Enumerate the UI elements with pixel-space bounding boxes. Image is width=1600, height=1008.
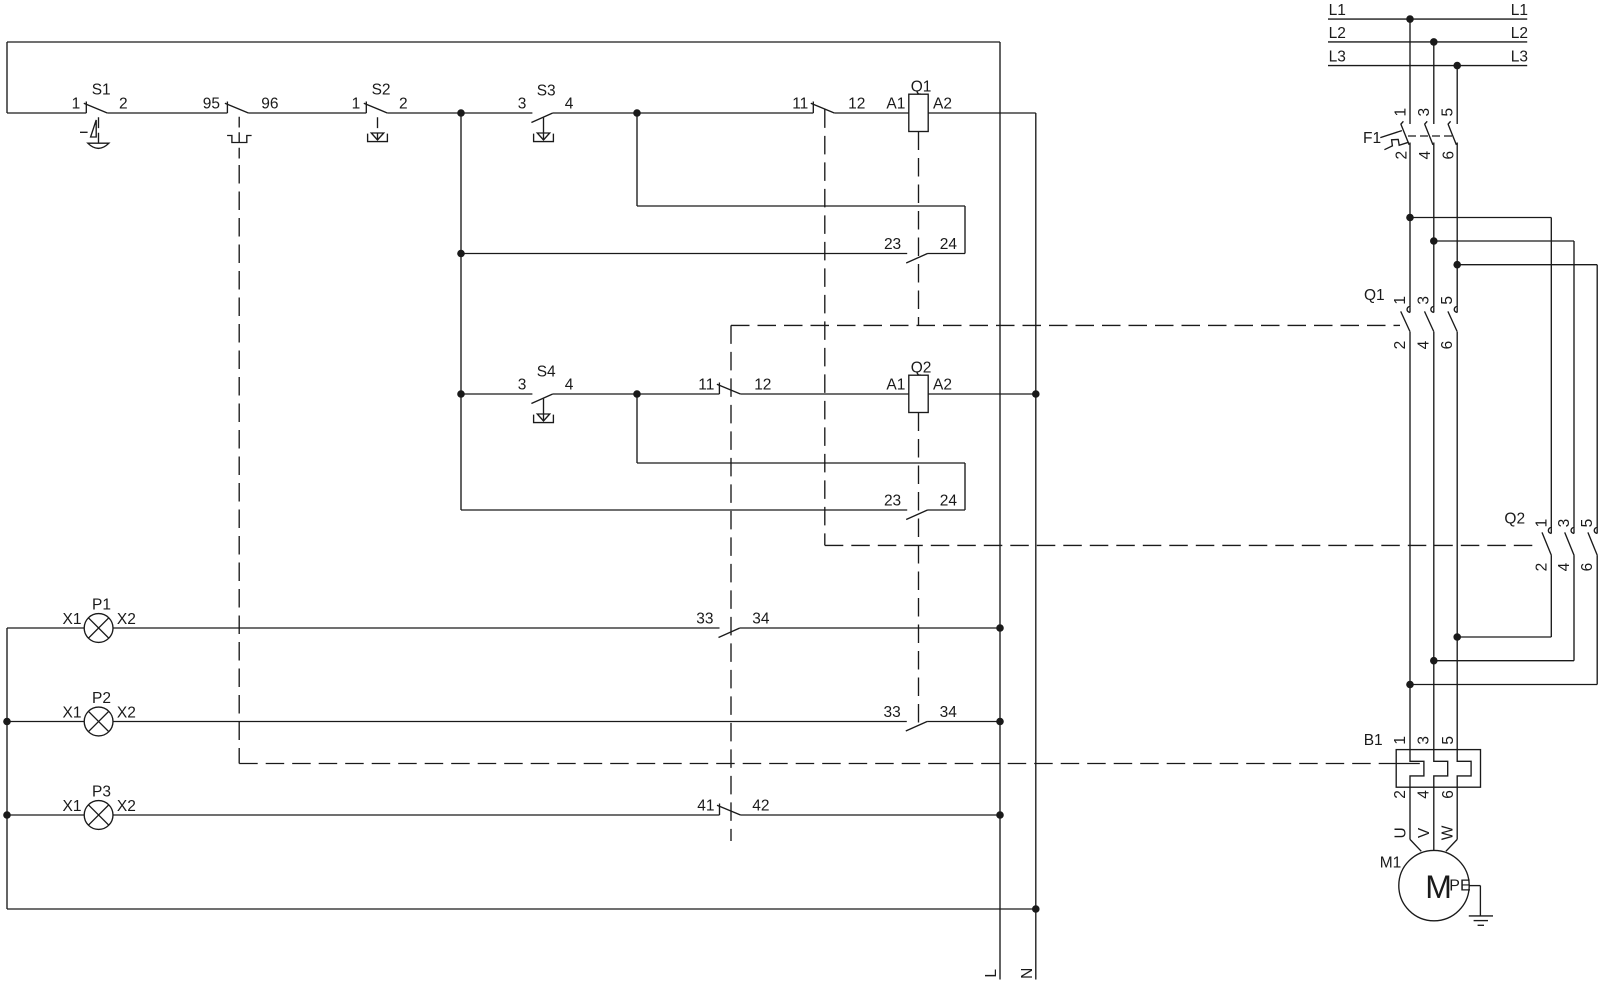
S2 pin 1 label [352,95,361,112]
wire L1 drop to F1 [1409,19,1411,124]
Q2 pin A1 label [886,376,905,393]
B1 pin 5 label [1440,736,1457,745]
P2 pin X2 label [117,705,136,722]
B1 pin 4 label [1416,790,1433,799]
wire Q2 rung: 12 to coil Q2 [740,393,908,395]
Q1 coil reference label [911,79,932,96]
svg-text:3: 3 [518,376,527,393]
wire left supply rail (top segment) [6,42,8,113]
contactor Q2 NO auxiliary contact 33-34 (P2) [906,722,927,732]
svg-text:1: 1 [1392,296,1409,305]
switch S2 NC pushbutton contact [364,102,388,114]
P3 pin X1 label [63,798,82,815]
L3 label right [1511,49,1528,66]
P1 pin X1 label [63,611,82,628]
wire Q2 pole 3 output [1410,555,1597,684]
svg-text:P3: P3 [92,784,111,801]
P1 pin X2 label [117,611,136,628]
svg-text:S3: S3 [537,83,556,100]
wire P1 rung: rail to lamp [7,627,84,629]
node L3 rail [1328,65,1527,67]
svg-text:P1: P1 [92,597,111,614]
wire P1 rung: lamp to contact 33 [113,627,720,629]
wire Q2 pole 1 output [1457,555,1551,637]
S4 actuator stem [543,399,545,414]
svg-text:L2: L2 [1511,25,1528,42]
wire Q1 pole 3 output [1456,332,1458,750]
wire Q2 23-24 rung left [461,509,907,511]
motor M1 body [1399,850,1469,920]
pin 95 label [203,95,220,112]
wire Q2 rung: feeder to S4 [461,393,532,395]
svg-text:24: 24 [940,236,958,253]
svg-text:4: 4 [1417,151,1434,160]
contactor coil Q2 [909,375,928,412]
mechanical link Q1 vertical (to aux contacts) [730,325,732,841]
mechanical link from 95-96 to trip bar (vertical) [238,117,240,159]
node junction L3 tap [1453,62,1461,70]
svg-text:4: 4 [1415,340,1432,349]
svg-text:X2: X2 [117,705,136,722]
contactor Q2 main contacts (3-pole) [1542,528,1597,556]
node junction Q2-A2 on N rail [1032,390,1040,398]
svg-text:M: M [1425,869,1452,905]
S2 pushbutton actuator [368,133,388,142]
wire F1-4 to Q1 pole 2 [1433,143,1435,308]
svg-text:U: U [1392,827,1409,838]
wire Q2 rung: A2 to N rail [928,393,1036,395]
P2 reference label [92,690,111,707]
svg-text:1: 1 [352,95,361,112]
node N rail label [1019,968,1036,979]
wire P3 rung: rail to lamp [7,814,84,816]
svg-text:F1: F1 [1363,130,1381,147]
node junction bottom frame on N rail [1032,905,1040,913]
svg-text:PE: PE [1449,877,1470,894]
S3 pin 4 label [565,95,574,112]
wire bypass L3 to Q2 pole 3 [1457,265,1597,529]
svg-text:23: 23 [884,492,901,509]
L2 label left [1329,25,1346,42]
node L rail label [983,969,1000,978]
svg-text:Q1: Q1 [1364,287,1385,304]
Q1 pin A1 label [886,95,905,112]
B1 pin 6 label [1440,790,1457,799]
Q1 pin A2 label [933,95,952,112]
wire top frame from left rail to L rail [7,41,1000,43]
circuit breaker F1 (3-pole) [1380,121,1456,149]
lamp P1 [84,614,113,643]
wire main rung: S1 to overload contact [107,112,227,114]
node junction F1-6 bypass tap [1453,261,1461,269]
svg-text:4: 4 [1416,790,1433,799]
wire Q2 23-24 rung right [928,509,966,511]
contactor Q1 NO auxiliary contact 23-24 [906,254,927,264]
S4 pushbutton actuator [534,414,554,423]
wire Q2 23-24 loop top [637,462,965,464]
mechanical link from trip bar down to B1 (vertical) [238,165,240,764]
switch S3 NO pushbutton contact [531,113,552,123]
Q1 pole pin 3 label [1415,296,1432,305]
wire main rung: 96 to S2 [248,112,366,114]
wire F1-2 to Q1 pole 1 [1409,143,1411,308]
svg-text:N: N [1019,968,1036,979]
svg-text:3: 3 [1556,519,1573,528]
svg-text:33: 33 [884,704,901,721]
svg-text:B1: B1 [1364,732,1383,749]
pin 24 label [940,236,958,253]
node junction at 23-24 tap [457,250,465,258]
lamp P3 [84,801,113,830]
pin 23 label (Q2) [884,492,901,509]
svg-text:5: 5 [1440,736,1457,745]
svg-text:2: 2 [1392,341,1409,350]
S3 pin 3 label [518,95,527,112]
svg-text:S2: S2 [372,82,391,99]
node junction P2 on left rail [3,718,11,726]
svg-text:2: 2 [1393,151,1410,160]
node A junction [457,109,465,117]
S3 reference label [537,83,556,100]
S2 reference label [372,82,391,99]
mechanical link 11-12 to Q2 poles (horizontal) [825,544,1540,546]
svg-text:6: 6 [1441,151,1458,160]
svg-text:2: 2 [119,95,128,112]
svg-text:41: 41 [697,797,714,814]
Q2 pole pin 2 label [1533,563,1550,572]
svg-text:5: 5 [1439,108,1456,117]
S1 mushroom-head actuator [80,117,109,148]
svg-text:M1: M1 [1380,855,1402,872]
P2 pin X1 label [63,705,82,722]
mechanical link Q2 coil to holding contact [918,413,920,727]
lamp P2 [84,707,113,736]
wire main rung: 12 to coil Q1 [834,112,909,114]
svg-text:L: L [983,969,1000,978]
B1 pin 3 label [1416,736,1433,745]
S1 pin 1 label [72,95,81,112]
svg-text:S4: S4 [537,364,556,381]
svg-text:2: 2 [1533,563,1550,572]
node L1 rail [1328,18,1527,20]
wire node B vertical to loop [636,113,638,206]
switch S4 NO pushbutton contact [531,394,552,404]
pin 12 label [848,95,865,112]
wire Q1 pole 2 output [1433,332,1435,750]
Q2 pole pin 5 label [1579,519,1596,528]
node C junction [633,390,641,398]
svg-text:4: 4 [565,376,574,393]
node junction P3 on L rail [996,811,1004,819]
svg-text:11: 11 [698,376,714,393]
wire node C vertical to loop [636,394,638,463]
wire main rung: node A to S3 [461,112,532,114]
node junction P3 on left rail [3,811,11,819]
svg-text:L3: L3 [1329,49,1346,66]
node junction L2 tap [1430,38,1438,46]
wire P2 rung: lamp to contact 33 [113,721,907,723]
wire Q2 23-24 loop right vertical [964,463,966,510]
svg-text:2: 2 [399,95,408,112]
F1 reference label [1363,130,1381,147]
svg-text:42: 42 [752,797,769,814]
node junction S4 rung left [457,390,465,398]
Q2 pole pin 6 label [1579,563,1596,572]
Q2 pole pin 3 label [1556,519,1573,528]
wire main rung: left rail to S1 [7,112,86,114]
overload relay B1 NC contact 95-96 [225,102,249,114]
wire main rung: A2 to N rail [928,112,1036,114]
motor M1 letter [1425,869,1452,905]
Q1 pole pin 6 label [1439,341,1456,350]
mechanical link Q1 horizontal [731,324,1400,326]
wire Q2 rung: S4 to node C [553,393,637,395]
S2 actuator link [377,117,379,133]
svg-text:L3: L3 [1511,49,1528,66]
S4 pin 4 label [565,376,574,393]
svg-text:S1: S1 [92,82,111,99]
B1 pin 1 label [1392,736,1409,745]
Q1 pole pin 5 label [1439,296,1456,305]
pin 96 label [261,95,278,112]
pin 34 label (P1) [752,610,770,627]
svg-text:12: 12 [848,95,865,112]
motor PE label [1449,877,1470,894]
B1 pin 2 label [1392,790,1409,799]
wire 23-24 loop top [637,205,965,207]
contactor Q1 NC auxiliary contact 41-42 (P3) [717,804,741,816]
ground (PE earth symbol) [1469,886,1493,926]
node junction L1 tap [1406,15,1414,23]
S2 pin 2 label [399,95,408,112]
wire F1-6 to Q1 pole 3 [1456,143,1458,308]
wire main rung: S2 to node A [387,112,461,114]
wire node A vertical feeder [460,113,462,510]
svg-text:1: 1 [1392,736,1409,745]
svg-text:3: 3 [1416,108,1433,117]
wire bypass L1 to Q2 pole 1 [1410,218,1551,529]
wire Q2 pole 2 output [1434,555,1574,661]
mechanical link 11-12 to Q2 poles (vertical) [824,109,826,545]
svg-text:A2: A2 [933,376,952,393]
L3 label left [1329,49,1346,66]
svg-text:4: 4 [565,95,574,112]
Q1 pole pin 4 label [1415,340,1432,349]
S4 pin 3 label [518,376,527,393]
wire 23-24 loop right vertical [964,206,966,254]
pin 24 label (Q2) [940,492,958,509]
svg-text:A2: A2 [933,95,952,112]
node junction F1-2 bypass tap [1406,214,1414,222]
mechanical link from 95-96 to B1 (horizontal) [239,763,1396,765]
overload relay B1 body [1396,750,1480,788]
L1 label left [1329,2,1346,19]
svg-text:11: 11 [792,95,808,112]
wire N rail vertical [1035,113,1037,980]
svg-text:X1: X1 [63,705,82,722]
wire bottom frame to N rail [7,908,1036,910]
svg-text:Q2: Q2 [911,360,932,377]
Q2 pin A2 label [933,376,952,393]
F1 pin 1 label [1392,108,1409,117]
S1 reference label [92,82,111,99]
motor terminal U label [1392,827,1409,838]
svg-text:24: 24 [940,492,958,509]
F1 pin 6 label [1441,151,1458,160]
pin 12 label (Q2 rung) [754,376,771,393]
svg-text:12: 12 [754,376,771,393]
L1 label right [1511,2,1528,19]
svg-text:L1: L1 [1329,2,1346,19]
svg-text:34: 34 [940,704,958,721]
wire L rail vertical [999,42,1001,980]
svg-text:3: 3 [1415,296,1432,305]
svg-text:3: 3 [1416,736,1433,745]
svg-text:34: 34 [752,610,770,627]
svg-text:A1: A1 [886,95,905,112]
S4 reference label [537,364,556,381]
svg-text:3: 3 [518,95,527,112]
S3 pushbutton actuator [534,133,554,142]
svg-text:33: 33 [696,610,713,627]
P1 reference label [92,597,111,614]
wire P3 rung: 42 to L rail [741,814,1001,816]
wire bypass L2 to Q2 pole 2 [1434,241,1574,529]
node junction F1-4 bypass tap [1430,237,1438,245]
Q1 pole pin 1 label [1392,296,1409,305]
svg-text:6: 6 [1439,341,1456,350]
svg-text:V: V [1416,827,1433,838]
L2 label right [1511,25,1528,42]
svg-text:Q1: Q1 [911,79,932,96]
svg-text:X2: X2 [117,611,136,628]
svg-text:L2: L2 [1329,25,1346,42]
Q2 coil reference label [911,360,932,377]
svg-text:1: 1 [1392,108,1409,117]
S1 pin 2 label [119,95,128,112]
node junction Q2-pole3 to U drop [1406,681,1414,689]
svg-text:1: 1 [1533,519,1550,528]
switch S1 NC contact [84,102,108,114]
pin 34 label (P2) [940,704,958,721]
contactor Q1 NO auxiliary contact 33-34 (P1) [719,628,740,638]
F1 pin 4 label [1417,151,1434,160]
node junction P2 on L rail [996,718,1004,726]
wire B1 to motor W [1446,787,1457,851]
wire P3 rung: lamp to contact 41 [113,814,720,816]
B1 heater elements [1396,750,1471,788]
pin 23 label [884,236,901,253]
Q1 pole pin 2 label [1392,341,1409,350]
node B junction [633,109,641,117]
pin 41 label [697,797,714,814]
wire Q1 pole 1 output [1409,332,1411,750]
svg-text:X1: X1 [63,611,82,628]
M1 reference label [1380,855,1402,872]
contactor Q1 main contacts (3-pole) [1401,307,1458,332]
F1 pin 2 label [1393,151,1410,160]
node junction P1 on L rail [996,624,1004,632]
svg-text:2: 2 [1392,790,1409,799]
pin 11 label (Q2 rung) [698,376,714,393]
wire P2 rung: rail to lamp [7,721,84,723]
pin 42 label [752,797,769,814]
B1 reference label [1364,732,1383,749]
wire P2 rung: 34 to L rail [927,721,1000,723]
wire main rung: S3 to node B [553,112,637,114]
motor terminal V label [1416,827,1433,838]
svg-text:X1: X1 [63,798,82,815]
pin 11 label [792,95,808,112]
svg-text:5: 5 [1439,296,1456,305]
F1 pin 3 label [1416,108,1433,117]
svg-text:P2: P2 [92,690,111,707]
svg-text:4: 4 [1556,562,1573,571]
pin 33 label (P2) [884,704,901,721]
overload trip symbol [227,136,252,143]
svg-text:6: 6 [1440,790,1457,799]
node L2 rail [1328,41,1527,43]
wire 23-24 rung left [461,253,907,255]
Q1 power reference label [1364,287,1385,304]
Q2 power reference label [1504,511,1525,528]
wire L2 drop to F1 [1433,42,1435,124]
contactor Q1 NC interlock contact 11-12 [717,383,741,395]
svg-text:95: 95 [203,95,220,112]
contactor Q2 NO auxiliary contact 23-24 [906,510,927,520]
svg-text:6: 6 [1579,563,1596,572]
wire L3 drop to F1 [1456,66,1458,124]
mechanical link Q1 coil to holding contact [918,132,920,326]
svg-text:A1: A1 [886,376,905,393]
motor terminal W label [1440,825,1457,840]
contactor Q2 NC interlock contact 11-12 [811,102,835,114]
svg-text:Q2: Q2 [1504,511,1525,528]
svg-text:L1: L1 [1511,2,1528,19]
svg-text:96: 96 [261,95,278,112]
S3 actuator stem [543,118,545,133]
svg-text:X2: X2 [117,798,136,815]
P3 reference label [92,784,111,801]
contactor coil Q1 [909,94,928,131]
wire B1 to motor U [1410,787,1421,851]
pin 33 label (P1) [696,610,713,627]
wire Q2 rung: node C to interlock [637,393,719,395]
wire main rung: node B to interlock contact [637,112,813,114]
svg-text:1: 1 [72,95,81,112]
Q2 pole pin 1 label [1533,519,1550,528]
F1 pin 5 label [1439,108,1456,117]
node junction Q2-pole2 to V drop [1430,657,1438,665]
wire P1 rung: 34 to L rail [740,627,1000,629]
svg-text:5: 5 [1579,519,1596,528]
svg-text:W: W [1440,825,1457,840]
Q2 pole pin 4 label [1556,562,1573,571]
P3 pin X2 label [117,798,136,815]
svg-text:23: 23 [884,236,901,253]
wire 23-24 rung right [928,253,966,255]
wire B1 to motor V [1433,787,1435,850]
wire left supply rail (bottom segment) [6,628,8,909]
node junction Q2-pole1 to W drop [1453,633,1461,641]
